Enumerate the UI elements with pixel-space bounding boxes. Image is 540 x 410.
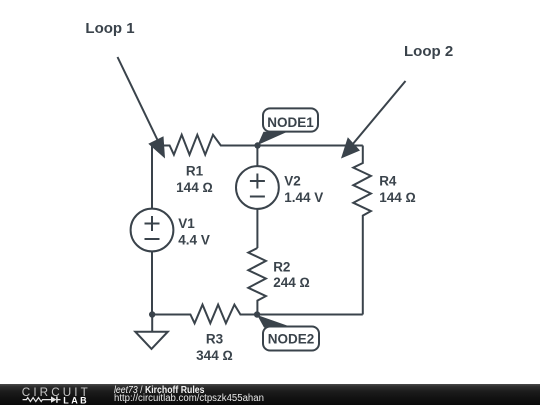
ground bbox=[135, 315, 168, 349]
wire right rail bbox=[362, 251, 364, 315]
resistor R3 bbox=[152, 305, 257, 324]
label V1 bbox=[178, 216, 210, 247]
svg-text:Loop 1: Loop 1 bbox=[85, 20, 134, 37]
svg-text:244 Ω: 244 Ω bbox=[273, 275, 310, 290]
annotation arrow Loop 2 bbox=[341, 81, 406, 159]
resistor R4 bbox=[353, 146, 371, 252]
wire left rail upper bbox=[151, 146, 153, 209]
node label NODE2 bbox=[257, 315, 319, 351]
svg-text:NODE2: NODE2 bbox=[268, 332, 315, 347]
footer bar bbox=[0, 384, 540, 405]
svg-text:R4: R4 bbox=[379, 173, 397, 188]
svg-text:V2: V2 bbox=[284, 173, 301, 188]
junction dot ground node bbox=[149, 311, 155, 317]
voltage source V2 bbox=[236, 146, 279, 249]
label V2 bbox=[284, 173, 323, 204]
wire top right bbox=[258, 145, 363, 147]
label R4 bbox=[379, 173, 416, 204]
voltage source V1 bbox=[131, 209, 174, 252]
footer title bbox=[114, 386, 218, 396]
annotation text Loop 2 bbox=[404, 43, 453, 60]
CircuitLab logo bbox=[0, 384, 110, 405]
svg-text:144 Ω: 144 Ω bbox=[176, 180, 213, 195]
svg-text:NODE1: NODE1 bbox=[267, 115, 314, 130]
svg-text:R1: R1 bbox=[186, 163, 204, 178]
annotation arrow Loop 1 bbox=[118, 57, 166, 159]
footer url bbox=[114, 394, 270, 404]
svg-text:V1: V1 bbox=[178, 216, 195, 231]
svg-text:1.44 V: 1.44 V bbox=[284, 190, 323, 205]
annotation text Loop 1 bbox=[85, 20, 134, 37]
svg-text:LAB: LAB bbox=[63, 396, 89, 405]
wire left rail lower bbox=[151, 251, 153, 314]
svg-text:4.4 V: 4.4 V bbox=[178, 232, 210, 247]
node label NODE1 bbox=[258, 108, 318, 145]
svg-text:344 Ω: 344 Ω bbox=[196, 348, 233, 363]
label R2 bbox=[273, 259, 310, 290]
label R3 bbox=[196, 332, 233, 364]
svg-text:R2: R2 bbox=[273, 259, 290, 274]
resistor R1 bbox=[152, 135, 258, 155]
wire bottom right bbox=[257, 314, 363, 316]
svg-text:R3: R3 bbox=[206, 332, 224, 347]
resistor R2 bbox=[248, 248, 266, 315]
svg-text:Loop 2: Loop 2 bbox=[404, 43, 453, 60]
junction dot NODE2 bbox=[254, 311, 260, 317]
label R1 bbox=[176, 163, 213, 195]
svg-text:144 Ω: 144 Ω bbox=[379, 190, 416, 205]
junction dot NODE1 bbox=[254, 142, 260, 148]
